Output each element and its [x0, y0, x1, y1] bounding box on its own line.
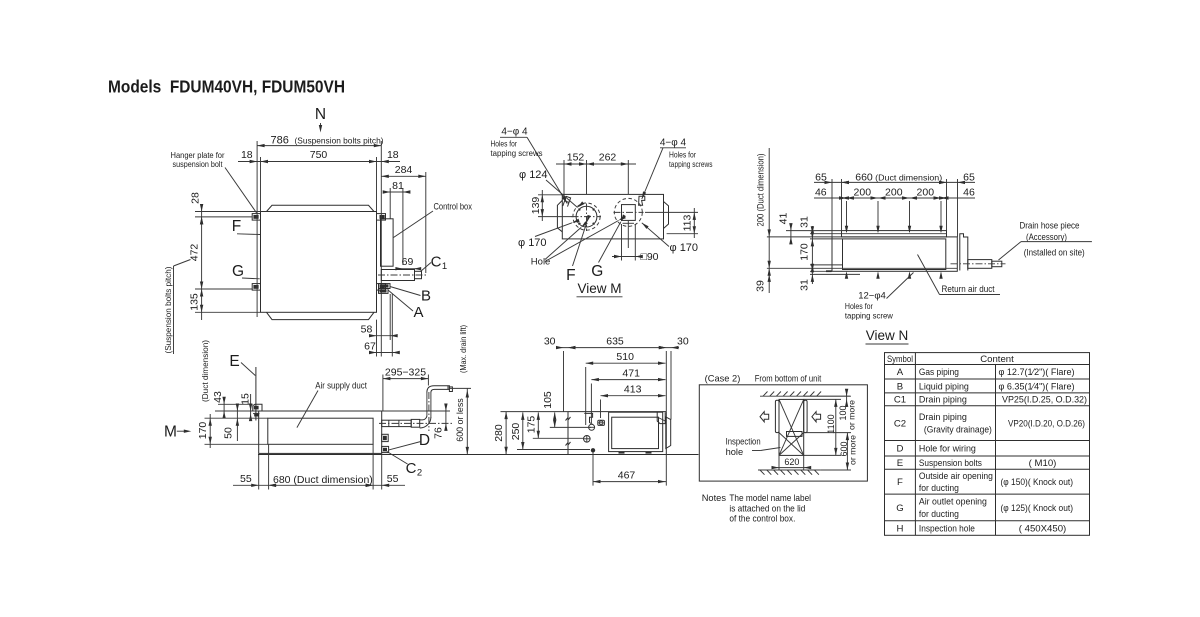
svg-text:View N: View N [866, 328, 909, 343]
drain riser pipe vertical [426, 393, 428, 417]
svg-text:67: 67 [364, 340, 376, 352]
svg-text:76: 76 [433, 427, 445, 439]
svg-text:for ducting: for ducting [919, 509, 959, 520]
svg-text:C: C [406, 460, 417, 477]
svg-text:152: 152 [567, 152, 585, 164]
svg-text:55: 55 [240, 473, 252, 485]
svg-text:F: F [566, 267, 575, 284]
dimension 170 front [205, 417, 268, 419]
svg-text:Return air duct: Return air duct [942, 284, 995, 294]
svg-text:113: 113 [682, 214, 694, 231]
svg-text:280: 280 [493, 424, 505, 442]
svg-text:46: 46 [963, 186, 975, 198]
left circle phi124 with dashed phi170 [576, 206, 597, 227]
svg-text:C: C [431, 254, 442, 271]
svg-text:43: 43 [212, 391, 224, 403]
svg-text:Drain piping: Drain piping [919, 395, 967, 406]
svg-text:( M10): ( M10) [1029, 458, 1057, 469]
View N top line extension left [767, 236, 832, 238]
svg-text:295−325: 295−325 [385, 366, 426, 378]
svg-text:1100: 1100 [826, 414, 836, 433]
svg-text:30: 30 [544, 335, 556, 347]
dimension 46 200 200 200 46 bolt holes [846, 201, 848, 232]
side view hanger plate [584, 413, 593, 424]
dimension 600 or more [804, 432, 851, 434]
svg-text:65: 65 [963, 171, 975, 183]
svg-text:D: D [419, 432, 430, 449]
svg-text:786: 786 [271, 134, 289, 146]
svg-text:4−φ 4: 4−φ 4 [501, 127, 528, 138]
svg-text:Inspection: Inspection [726, 436, 761, 446]
hanger plate bottom-left [252, 284, 260, 291]
pipe fittings A B [379, 284, 391, 289]
svg-text:41: 41 [778, 213, 790, 225]
svg-text:or more: or more [847, 400, 857, 430]
svg-text:105: 105 [542, 391, 554, 409]
svg-text:Drain piping: Drain piping [919, 412, 967, 423]
svg-text:φ 124: φ 124 [519, 169, 548, 181]
svg-text:46: 46 [815, 186, 827, 198]
front view air supply duct opening [268, 418, 373, 444]
View M left flange [557, 200, 562, 231]
svg-text:G: G [896, 503, 903, 514]
svg-text:262: 262 [599, 152, 617, 164]
bottom bolt tick marks view N [826, 270, 832, 272]
dimension 600 or less max drain lift [449, 387, 471, 389]
svg-text:467: 467 [618, 469, 636, 481]
svg-text:B: B [421, 288, 431, 305]
side view hole 175 [584, 436, 591, 443]
svg-text:□90: □90 [641, 251, 659, 263]
case 2 bottom hatch line [758, 469, 821, 471]
dimension 295-325 [382, 375, 384, 412]
svg-text:135: 135 [189, 293, 201, 311]
dimension square 90 [621, 224, 623, 261]
View N duct opening inner rect [843, 239, 946, 270]
svg-text:E: E [897, 458, 903, 469]
dimension 76 [382, 410, 450, 412]
svg-text:413: 413 [624, 383, 642, 395]
svg-text:hole: hole [726, 447, 744, 457]
dimension 18 750 18 [260, 157, 262, 212]
side view left edge with breaks [567, 412, 569, 455]
dimension 100 or more [804, 395, 851, 397]
svg-text:472: 472 [189, 244, 201, 262]
symbol table [885, 353, 1090, 536]
left circle centerlines [572, 216, 602, 218]
svg-text:G: G [591, 263, 603, 280]
svg-text:Holes for: Holes for [669, 149, 696, 159]
View M top-left hanger flag [563, 196, 571, 206]
dimension 55 680 55 [258, 455, 260, 490]
svg-text:170: 170 [799, 243, 811, 261]
svg-text:50: 50 [223, 427, 235, 439]
svg-text:81: 81 [392, 180, 404, 192]
svg-text:31: 31 [799, 216, 811, 228]
tapping screw marks on left circle [592, 222, 596, 226]
dimension 786 suspension bolts pitch [256, 141, 258, 317]
svg-text:12−φ4: 12−φ4 [858, 290, 886, 301]
View M panel body [562, 194, 663, 239]
floor section line [258, 454, 699, 456]
svg-text:65: 65 [815, 171, 827, 183]
bottom bolt arrows view N [845, 271, 848, 279]
svg-text:(Suspension bolts pitch): (Suspension bolts pitch) [163, 266, 173, 353]
svg-text:VP25(I.D.25, O.D.32): VP25(I.D.25, O.D.32) [1002, 395, 1087, 406]
drain pipe assembly front view [382, 420, 412, 426]
side view drain dot 250 [591, 448, 595, 452]
svg-text:Air outlet opening: Air outlet opening [919, 497, 987, 508]
svg-text:Liquid piping: Liquid piping [919, 381, 969, 392]
svg-text:Content: Content [980, 354, 1014, 365]
drain hose piece pipe [968, 260, 992, 269]
dimension 175 [537, 412, 539, 438]
right circle phi170 dashed [614, 198, 642, 226]
svg-text:φ 170: φ 170 [670, 242, 699, 254]
dimension 28 472 135 left [195, 211, 261, 213]
side view bolt square [598, 420, 605, 425]
dimension 50 [236, 405, 238, 441]
svg-text:Notes: Notes [702, 493, 727, 503]
svg-text:A: A [897, 367, 904, 378]
dimension 1100 [804, 398, 841, 400]
svg-text:M: M [164, 423, 177, 440]
svg-text:15: 15 [240, 393, 252, 405]
svg-text:for ducting: for ducting [919, 483, 959, 494]
svg-text:E: E [229, 353, 239, 370]
svg-text:18: 18 [387, 149, 399, 161]
svg-text:(Duct dimension): (Duct dimension) [200, 340, 210, 402]
dimension 139 [538, 194, 562, 196]
svg-text:39: 39 [755, 280, 767, 292]
svg-text:tapping screws: tapping screws [669, 159, 713, 169]
svg-text:620: 620 [784, 457, 799, 467]
svg-text:170: 170 [197, 422, 209, 440]
dimension 280 [505, 412, 507, 455]
svg-text:Outside air opening: Outside air opening [919, 471, 993, 482]
View M right flange [664, 202, 669, 229]
dimension 58 [376, 320, 378, 357]
side view right hanger plate [657, 412, 665, 423]
dimension 413 [600, 400, 602, 419]
fitting C2 drain [382, 446, 389, 452]
svg-text:200 (Duct dimension): 200 (Duct dimension) [756, 154, 766, 227]
case 2 flow arrows [760, 412, 769, 422]
side view outline [501, 411, 569, 413]
fitting D hole for wiring [382, 434, 389, 441]
dimension 31 170 31 left [811, 226, 813, 284]
svg-text:55: 55 [387, 473, 399, 485]
svg-text:28: 28 [190, 192, 202, 204]
case 2 notch rect [787, 432, 803, 437]
svg-text:tapping screws: tapping screws [491, 148, 544, 158]
dimension 200 duct and 39 [768, 148, 770, 293]
svg-text:D: D [896, 444, 903, 455]
hanger plate bottom-right [377, 284, 386, 291]
svg-text:(Gravity drainage): (Gravity drainage) [924, 424, 992, 435]
svg-text:A: A [413, 304, 423, 321]
plan view top lid [267, 205, 375, 211]
svg-text:Hole for wiring: Hole for wiring [919, 444, 976, 455]
dimension 81 [389, 188, 391, 219]
svg-text:510: 510 [616, 351, 634, 363]
svg-text:or more: or more [848, 435, 858, 465]
svg-text:N: N [315, 106, 326, 123]
svg-text:C1: C1 [894, 395, 906, 406]
drain top elbow and stub [427, 385, 450, 392]
svg-text:18: 18 [241, 149, 253, 161]
svg-text:635: 635 [606, 335, 624, 347]
dimension 471 [590, 384, 592, 424]
svg-text:250: 250 [510, 423, 522, 441]
svg-text:30: 30 [677, 335, 689, 347]
svg-text:200: 200 [917, 186, 935, 198]
svg-text:Holes for: Holes for [491, 139, 518, 149]
dimension 67 [391, 294, 393, 357]
svg-text:750: 750 [310, 149, 328, 161]
plan view bottom lid [267, 312, 375, 319]
front view unit body [259, 411, 382, 453]
svg-text:VP20(I.D.20, O.D.26): VP20(I.D.20, O.D.26) [1008, 419, 1085, 430]
svg-text:284: 284 [395, 164, 413, 176]
plan view unit body [261, 212, 377, 313]
View N long line duct bottom [767, 267, 958, 269]
svg-text:Hole: Hole [531, 257, 551, 268]
View M top-right hanger flag [639, 196, 645, 205]
svg-text:4−φ 4: 4−φ 4 [660, 138, 687, 149]
svg-text:Inspection hole: Inspection hole [919, 523, 975, 534]
dimension 43 [218, 403, 253, 405]
svg-text:F: F [897, 477, 903, 488]
dimension 510 [585, 367, 587, 425]
case 2 box [699, 385, 867, 481]
View N lower flange line [810, 273, 860, 275]
svg-text:φ 12.7(1∕2")( Flare): φ 12.7(1∕2")( Flare) [999, 367, 1075, 378]
case 2 duct flange bars [775, 400, 779, 432]
dimension 467 [592, 453, 594, 486]
svg-text:200: 200 [885, 186, 903, 198]
hanger plate top-right [377, 214, 386, 221]
svg-text:tapping screw: tapping screw [845, 311, 894, 321]
svg-text:175: 175 [525, 416, 537, 434]
svg-text:Control box: Control box [434, 202, 473, 212]
drain elbow up [420, 416, 431, 428]
svg-text:G: G [232, 263, 244, 280]
svg-text:471: 471 [622, 367, 640, 379]
control box on plan view [381, 219, 394, 266]
svg-text:Gas piping: Gas piping [919, 367, 959, 378]
svg-text:69: 69 [402, 256, 414, 268]
dimension 152 262 [563, 160, 565, 198]
svg-text:C2: C2 [894, 419, 906, 430]
svg-text:Symbol: Symbol [887, 354, 913, 365]
dimension 105 [554, 412, 556, 427]
svg-text:200: 200 [854, 186, 872, 198]
svg-text:Models FDUM40VH, FDUM50VH: Models FDUM40VH, FDUM50VH [108, 77, 345, 97]
svg-text:suspension bolt: suspension bolt [173, 159, 224, 169]
View N duct flange top [842, 231, 947, 237]
suspension bolt E rod [255, 367, 257, 421]
svg-text:H: H [896, 523, 903, 534]
svg-text:Drain hose piece: Drain hose piece [1020, 221, 1080, 231]
E hanger bracket [253, 404, 262, 411]
svg-text:of the control box.: of the control box. [729, 514, 795, 525]
case 2 unit rect with X [779, 399, 804, 455]
svg-text:(φ 125)( Knock out): (φ 125)( Knock out) [1001, 503, 1074, 514]
side view right bracket [666, 417, 671, 449]
dimension 620 [778, 455, 780, 470]
dimension 15 [253, 413, 260, 415]
drain pipe C1 [381, 270, 414, 281]
case 2 top hatch line [760, 395, 850, 397]
svg-text:680 (Duct dimension): 680 (Duct dimension) [273, 474, 373, 486]
svg-text:(Suspension bolts pitch): (Suspension bolts pitch) [295, 135, 384, 145]
svg-text:Air supply duct: Air supply duct [315, 381, 367, 391]
svg-text:View M: View M [577, 281, 621, 296]
dimension 41 [790, 224, 792, 243]
View N bolt line [810, 233, 947, 235]
dimension 65 660 65 [831, 179, 833, 237]
drain socket bracket right [960, 234, 968, 271]
right circle centerlines [614, 211, 644, 213]
dimension 30 635 30 [563, 351, 565, 412]
svg-text:660: 660 [855, 171, 873, 183]
svg-text:31: 31 [799, 279, 811, 291]
View N unit body [832, 237, 957, 271]
svg-text:58: 58 [361, 324, 373, 336]
dimension 284 [425, 172, 427, 273]
svg-text:(Duct dimension): (Duct dimension) [875, 172, 942, 182]
svg-text:1: 1 [442, 261, 447, 272]
svg-text:F: F [232, 218, 241, 235]
svg-text:(Case 2): (Case 2) [705, 374, 741, 384]
svg-text:(Accessory): (Accessory) [1026, 232, 1067, 242]
hanger plate top-left [252, 214, 260, 221]
dimension 69 [398, 268, 419, 270]
svg-text:From bottom of unit: From bottom of unit [755, 374, 822, 384]
square hole 90 [622, 205, 636, 221]
dimension 250 [522, 412, 524, 449]
svg-text:2: 2 [417, 468, 422, 479]
dimension 113 [645, 211, 698, 213]
svg-text:139: 139 [530, 197, 542, 215]
svg-text:600 or less: 600 or less [455, 398, 465, 442]
svg-text:B: B [897, 381, 903, 392]
svg-text:( 450X450): ( 450X450) [1019, 523, 1066, 534]
svg-text:(Max. drain lift): (Max. drain lift) [459, 325, 468, 373]
svg-text:(Installed on site): (Installed on site) [1024, 248, 1085, 258]
View N extension 170 bottom [810, 264, 842, 266]
control box side view [609, 412, 663, 451]
svg-text:φ 170: φ 170 [518, 237, 547, 249]
svg-text:φ 6.35(1∕4")( Flare): φ 6.35(1∕4")( Flare) [999, 381, 1075, 392]
svg-text:(φ 150)( Knock out): (φ 150)( Knock out) [1001, 477, 1074, 488]
svg-text:Suspension bolts: Suspension bolts [919, 458, 982, 469]
